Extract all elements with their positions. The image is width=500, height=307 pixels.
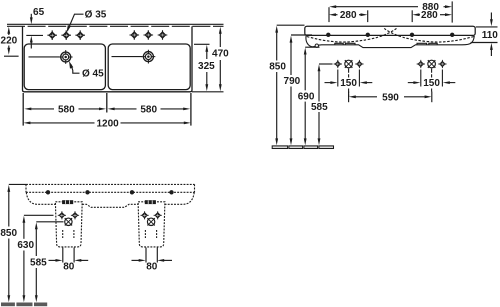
plan view: right basin drain centerline [112, 56, 143, 58]
front view: small overflow circle left [315, 44, 318, 47]
dim 585 (bottom view) [35, 229, 37, 297]
dim 470 (right side, full depth) [219, 34, 221, 85]
svg-text:1200: 1200 [96, 118, 119, 129]
plan view: left drain hole symbol (Ø45 target) [59, 50, 73, 64]
svg-text:280: 280 [340, 10, 357, 21]
plan view: back edge top line [7, 23, 224, 25]
plan view: basin outer outline [23, 26, 193, 91]
dim 1200 [30, 122, 185, 124]
dim 580 left [31, 108, 101, 110]
svg-text:150: 150 [423, 78, 440, 89]
front view: hidden basin arcs (dashed) [307, 28, 474, 42]
svg-text:850: 850 [0, 228, 17, 239]
svg-text:690: 690 [298, 91, 315, 102]
dim 280 right [412, 10, 445, 22]
bottom view: rim left end [25, 184, 27, 192]
svg-text:110: 110 [482, 30, 499, 41]
dim 150 left [325, 69, 373, 97]
svg-text:220: 220 [1, 36, 18, 47]
front view: right fixing bracket tabs [417, 43, 437, 45]
bottom view: floor bar [1, 303, 47, 307]
svg-text:80: 80 [63, 262, 75, 273]
svg-text:80: 80 [146, 262, 158, 273]
bottom view: left pedestal outline [55, 202, 82, 247]
svg-text:585: 585 [311, 102, 328, 113]
dim 850 (bottom view) [8, 192, 10, 297]
plan view: right basin tap hole row (3 crosses) [130, 30, 168, 40]
svg-text:150: 150 [340, 78, 357, 89]
bottom view: underside profile middle [82, 204, 138, 207]
plan view: outer front edge extension line to 470 dim [192, 91, 224, 93]
bottom view: underside profile right [165, 192, 194, 204]
bottom view: height dim stubs [9, 184, 64, 221]
front view: height dim stack extension stubs [277, 25, 333, 64]
svg-text:790: 790 [284, 76, 301, 87]
bottom view: left pedestal inner vertical marks [63, 230, 74, 238]
bottom view: right drain pipe lines [146, 248, 157, 263]
svg-text:470: 470 [212, 48, 229, 59]
bottom view: right pedestal tap cluster [141, 211, 162, 219]
dim 65 (back edge to tap row) [26, 14, 43, 49]
dim 630 (bottom view) [23, 222, 25, 297]
svg-text:580: 580 [58, 104, 75, 115]
svg-text:585: 585 [30, 257, 47, 268]
svg-text:325: 325 [198, 61, 215, 72]
plan view: back edge lower serrated line [7, 25, 224, 27]
dim 850 (front) [276, 32, 278, 140]
bottom view: rim right end [194, 184, 196, 192]
plan view: right basin bowl outline [108, 44, 190, 90]
dim 325 (right side) [194, 44, 210, 84]
bottom view: right drain collar (hatched) [145, 200, 155, 204]
svg-text:280: 280 [421, 10, 438, 21]
svg-text:850: 850 [269, 62, 286, 73]
front view: floor bar [272, 146, 333, 149]
dim 220 (back edge to drain centerline) [4, 33, 19, 56]
bottom view: left drain collar (hatched) [63, 200, 73, 204]
bottom view: right pedestal inner vertical marks [145, 230, 156, 238]
svg-text:630: 630 [17, 240, 34, 251]
plan view: right drain hole symbol [142, 50, 156, 64]
front view: underside profile [306, 36, 474, 48]
front view: fixing dots on rim underside [326, 33, 454, 37]
svg-text:Ø 35: Ø 35 [85, 10, 107, 21]
dim 80 right [132, 259, 173, 261]
dim 790 (front) [290, 42, 292, 140]
label Ø45 with leader to left drain [71, 64, 80, 73]
svg-text:Ø 45: Ø 45 [82, 68, 104, 79]
bottom view: sink hidden outline (dashed) [26, 184, 195, 247]
front view: left tap cluster (diamond-circle-diamond) [334, 60, 364, 68]
bottom view: left drain pipe lines [63, 248, 74, 263]
plan extension lines below [23, 93, 191, 126]
bottom view: right pedestal outline [138, 202, 165, 247]
front view: right tap cluster [417, 60, 447, 68]
svg-text:590: 590 [382, 92, 399, 103]
label Ø35 with leader to middle tap hole [68, 14, 84, 30]
plan view: left basin tap hole row (3 crosses, Ø35) [47, 30, 85, 40]
bottom view: rim top edge [26, 183, 195, 185]
dim 590 (between basin centers) [349, 92, 432, 103]
dim 880 [329, 1, 452, 22]
plan view: left basin drain centerline [29, 56, 60, 58]
bottom view: rim bottom edge [26, 191, 195, 193]
plan view: left basin bowl outline [24, 44, 105, 90]
dim 585 (front) [318, 71, 320, 140]
dim 150 right [408, 69, 456, 93]
svg-text:65: 65 [33, 7, 45, 18]
dim 580 right [114, 108, 185, 110]
dim 690 (front) [304, 54, 306, 140]
dim 280 left [336, 10, 368, 22]
bottom view: fixing dots on rim [46, 190, 174, 194]
dim 110 (right side height) [471, 13, 498, 57]
bottom view: underside profile left [26, 192, 55, 204]
svg-text:580: 580 [140, 104, 157, 115]
front view: rim slab [305, 26, 475, 35]
bottom view: left pedestal tap cluster (2 diamonds + circle) [58, 211, 79, 219]
front view: left fixing bracket tabs [335, 43, 355, 45]
dim 80 left [49, 259, 89, 261]
